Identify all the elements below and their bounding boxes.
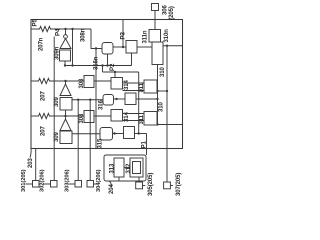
rail y99 [72,99,103,101]
wire pin302 riser into circuit [53,37,55,181]
block 313 [114,158,124,177]
wire pin303 riser [77,100,79,181]
op-amp 309 row1 (triangle up) [60,84,71,96]
wire 310 column down [157,65,159,125]
wire 311a output to pin307 riser [158,90,167,92]
svg-text:310: 310 [159,102,165,112]
wires 314a to 311a [123,82,145,84]
wire P2 down right column [138,72,140,134]
inverter bubble op-amp row0 [64,35,68,39]
wire B to 310 column [137,46,152,48]
svg-text:203: 203 [28,158,34,168]
block 316 rounded [103,95,114,106]
wire vertical mid net [95,49,97,149]
wire 311b output to border [158,124,183,126]
svg-text:309: 309 [54,132,60,142]
junction dot at pin307 riser [166,45,168,47]
wire block A bottom down [107,54,109,66]
leader tick 303 [69,183,75,185]
junction dot rail pin304 [89,99,91,101]
junction dot row1 [64,80,66,82]
wires 314b to 311b [123,113,145,115]
pin 301 square [33,181,40,188]
svg-text:316: 316 [99,100,105,110]
wire block row1 bottom to row2 dot [65,110,67,119]
node P1 wire down [146,134,148,156]
svg-text:309: 309 [54,97,60,107]
junction dot row0 at amp [64,28,66,30]
svg-text:301(205): 301(205) [21,169,27,192]
junction dot P2-314a [114,71,116,73]
svg-text:303(206): 303(206) [65,169,71,192]
svg-text:204: 204 [109,184,115,194]
block 311b [144,112,157,126]
junction dot rail pin303 [77,99,79,101]
svg-text:P3: P3 [120,31,127,39]
junction dot after 316 [115,98,117,100]
mid-right block [125,93,136,105]
block 314a [111,78,123,90]
svg-text:207: 207 [41,91,47,101]
pin 302 square [51,181,58,188]
horizontal rail y65.5 [66,65,132,67]
block 314b [111,110,123,122]
pin 305 square [136,182,143,189]
junction dot 311b out [156,123,158,125]
resistor 207 (row1) [37,78,51,83]
wire A to B [113,46,126,48]
junction dot rail-left [64,64,66,66]
svg-text:P1: P1 [141,140,148,148]
junction dot rail at 72.5 [71,64,73,66]
row2 wire from border [31,115,37,117]
svg-text:(205): (205) [169,6,175,20]
svg-text:313: 313 [110,163,116,173]
resistor 207n [38,26,52,31]
svg-text:310: 310 [160,67,166,77]
wire 313 bottom stub [118,177,120,181]
wire 316 to mid block [114,98,126,100]
svg-text:307(205): 307(205) [176,173,182,196]
svg-text:305(205): 305(205) [148,173,154,196]
wire block0 bottom to rail [64,61,66,66]
svg-text:309n: 309n [55,46,61,60]
wire bottom mid block to P1 [135,133,147,135]
wire pin301 [35,149,37,181]
wire mid block to 310 column [136,98,158,100]
leader tick 301 [26,183,33,185]
wire pin306 to 310n [154,11,156,30]
wire 312 bottom to pin305 [138,177,140,182]
block 315 rounded [100,128,113,141]
wire tall block right to border [163,45,183,47]
junction dot boxA bottom [106,64,108,66]
wire row0 corner down to box A [91,29,102,49]
svg-text:308: 308 [79,78,85,88]
junction dot mid net [95,47,97,49]
svg-text:315: 315 [98,138,104,148]
block 310n [149,30,161,43]
svg-text:310n: 310n [164,29,170,43]
wire stub to amp row1 [65,81,67,84]
wire 315 to bottom mid block [113,133,124,135]
junction dot P2 column bottom [138,132,140,134]
junction dot at riser [166,90,168,92]
resistor 207 (row2) [37,113,51,118]
wire row0 to P4 node [52,28,91,30]
junction dot rail at 102.5 [101,64,103,66]
junction dot P3 [122,46,124,48]
row1 wire from border [31,80,37,82]
wire row2 resistor to block 308 [51,115,84,117]
bottom mid block [124,127,135,139]
svg-text:207: 207 [41,126,47,136]
leader tick 302 [44,183,51,185]
junction dot lower wire [140,89,142,91]
wire vertical 308n node [72,29,74,66]
wire pin304 to block 315 [89,99,91,181]
tall block 310 column [152,42,163,65]
wire block B bottom down [131,53,133,66]
block 312 [130,158,143,177]
svg-text:311: 311 [139,82,145,92]
svg-text:316n: 316n [94,56,100,70]
series block 308 row2 [84,111,94,123]
pin 306 square [152,4,159,11]
wire pin307 riser [166,46,168,182]
block under op-amp row1 [60,98,72,111]
pin 307 square [164,182,171,189]
wire row2 box to 315 [72,133,100,135]
pin 304 square [87,181,94,188]
svg-text:P4: P4 [55,28,62,36]
wire P5 rail row0 [31,28,38,30]
svg-text:314: 314 [124,80,130,90]
block under op-amp row0 [60,50,71,61]
svg-text:308: 308 [79,113,85,123]
leader tick 305 [143,185,146,187]
junction dot at 310 column 99 [156,98,158,100]
main circuit block border 203 [31,20,183,149]
series block 308 row1 [84,76,94,88]
svg-text:304(206): 304(206) [96,169,102,192]
svg-text:312: 312 [126,163,132,173]
svg-text:306: 306 [163,5,169,15]
block B (P3 chain) [126,41,137,54]
node P3 vertical wire [122,20,124,48]
wire stub 314a top to P2 [114,72,116,78]
block A rounded (P3 chain) [102,43,113,55]
svg-text:P5: P5 [32,18,39,26]
svg-text:P2: P2 [109,63,116,71]
op-amp 309n (triangle, output up) [60,39,71,49]
svg-text:311: 311 [139,114,145,124]
wire row2 to 314b [94,115,111,117]
svg-text:311n: 311n [143,30,149,43]
block under op-amp row2 [60,131,72,144]
junction dot 311a out [156,90,158,92]
op-amp 309 row2 (triangle up) [60,119,71,131]
wire rail down to P2 wire [102,66,104,73]
svg-text:207n: 207n [39,37,45,51]
wire row1 resistor to block 308 [51,80,84,82]
wire row1 to 314a [94,80,111,82]
block 312 inner [133,162,141,174]
block 204 enclosure [104,155,146,181]
junction dot row2 [64,115,66,117]
leader tick 307 [170,185,173,187]
svg-text:302(206): 302(206) [39,169,45,192]
junction dot row0 right [71,28,73,30]
pin 303 square [75,181,82,188]
svg-text:308n: 308n [81,28,87,42]
block 311a [144,80,157,93]
wire 313 to 312 [124,167,130,169]
junction dot 315 out [113,132,115,134]
node P2 wire [103,71,139,73]
leader tick 304 [94,183,98,185]
wire stub to amp 309n apex [65,29,67,35]
